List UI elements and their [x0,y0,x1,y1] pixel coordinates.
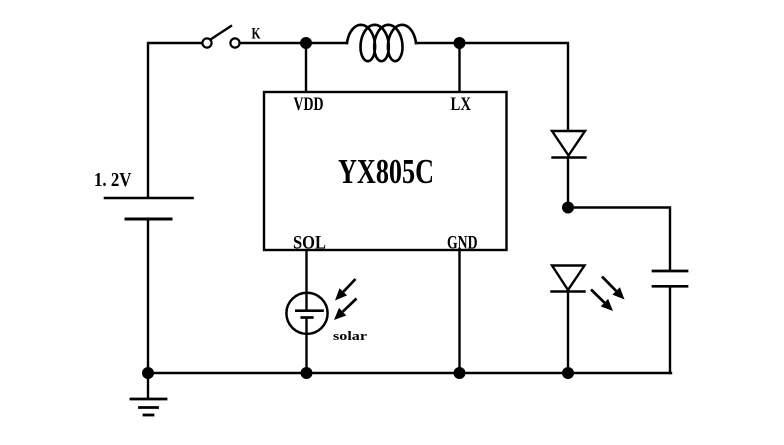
wire VDD pin stub [305,43,307,92]
svg-text:K: K [252,26,261,43]
switch K [202,26,239,48]
capacitor C1 [653,271,687,286]
diode D1 [552,131,586,158]
wire LX pin stub [458,43,460,92]
node LX junction dot [454,37,466,49]
wire LED to bottom rail [567,292,569,374]
inductor L1 [347,25,416,61]
wire GND pin to bottom rail [458,250,460,373]
wire switch to VDD node [240,42,306,44]
solar cell [286,293,327,373]
wire SOL pin to solar cell [305,250,307,293]
node GND junction dot [454,367,466,379]
svg-text:VDD: VDD [294,95,324,115]
LED light arrow 2 [591,290,613,312]
node solar bottom junction dot [301,367,313,379]
svg-text:GND: GND [447,234,478,254]
solar light arrow 1 [335,279,356,301]
svg-text:solar: solar [333,328,367,343]
svg-text:LX: LX [451,95,472,115]
LED D2 [552,266,585,292]
wire battery to bottom rail [147,219,149,373]
node LED bottom junction dot [562,367,574,379]
wire bottom rail [148,372,671,374]
wire LX node to diode branch [460,43,569,131]
wire VDD node to coil [306,42,347,44]
LED light arrow 1 [602,277,625,300]
node ground junction dot [142,367,154,379]
svg-text:SOL: SOL [293,234,326,254]
svg-text:YX805C: YX805C [338,152,434,191]
solar light arrow 2 [334,299,357,321]
IC U1 YX805C box [264,92,507,250]
ground [131,373,166,415]
node VDD junction dot [300,37,312,49]
node diode-LED junction dot [562,202,574,214]
wire diode to LED node [567,158,569,208]
battery BT1 1.2V [105,198,193,219]
wire battery top to switch [148,43,202,197]
svg-text:1. 2V: 1. 2V [94,169,132,191]
wire node to capacitor branch [568,208,670,270]
wire coil to LX node [416,42,460,44]
wire capacitor to bottom rail [669,286,671,373]
